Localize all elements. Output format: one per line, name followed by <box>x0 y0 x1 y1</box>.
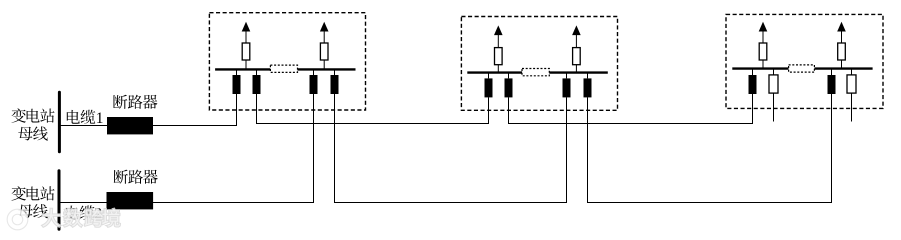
RMU3 bus-tie link (dotted box) <box>789 65 815 72</box>
RMU3 fuse F31 <box>759 43 767 69</box>
label: cable 1 (电缆1) <box>67 110 104 127</box>
RMU1 enclosure (dashed box) <box>209 13 365 110</box>
RMU3 load feeder arrow 1 <box>759 22 768 43</box>
wire: RMU1 S14 drop to link wire B <box>334 94 336 203</box>
wire: RMU1 S12 drop to link wire A <box>256 94 258 124</box>
wire: RMU3 S32 open stub <box>773 93 775 121</box>
RMU3 right bus section <box>814 67 872 69</box>
RMU2 load feeder arrow 2 <box>572 25 581 47</box>
wire: RMU2 S22 drop to link wire C <box>508 97 510 124</box>
busbar: substation bus 1 <box>58 92 61 151</box>
wire: RMU2 S24 drop to link wire D <box>587 97 589 203</box>
RMU1 switch S13 <box>310 69 318 94</box>
wire: RMU1 S13 drop to cable 2 <box>313 94 315 203</box>
RMU3 switch S32 <box>769 69 778 94</box>
RMU1 load feeder arrow 1 <box>242 22 251 43</box>
RMU2 bus-tie link (dotted box) <box>522 69 549 76</box>
wire: RMU2 S21 drop to link wire A <box>488 97 490 124</box>
label: circuit breaker QF1 (断路器) <box>113 95 157 109</box>
wire: link C RMU2-S22 to RMU3-S31 <box>508 123 753 125</box>
wire: RMU2 S23 drop to link wire B <box>566 97 568 203</box>
wire: link D RMU2-S24 to RMU3-S33 <box>587 202 832 204</box>
wire: cable 2 from bus2 to RMU1 switch S13 <box>59 202 314 204</box>
RMU2 switch S24 <box>584 73 592 98</box>
label: substation bus 1 (变电站母线) <box>12 108 55 140</box>
RMU2 right bus section <box>549 71 608 73</box>
circuit breaker QF1 <box>107 117 153 134</box>
RMU2 switch S22 <box>505 73 513 98</box>
watermark text 大数跨境 <box>42 209 120 227</box>
wire: link B RMU1-S14 to RMU2-S23 <box>334 202 567 204</box>
wire: RMU1 S11 drop to cable 1 <box>236 94 238 126</box>
wire: RMU3 S34 open stub <box>851 93 853 121</box>
RMU3 load feeder arrow 2 <box>837 22 846 43</box>
RMU1 left bus section <box>215 68 270 70</box>
wire: cable 1 from bus1 to RMU1 switch S11 <box>59 125 237 127</box>
RMU1 fuse F11 <box>242 43 250 69</box>
RMU2 enclosure (dashed box) <box>461 17 617 111</box>
RMU3 switch S33 <box>828 69 836 94</box>
RMU2 switch S21 <box>485 73 493 98</box>
svg-text:1: 1 <box>96 110 104 127</box>
RMU1 switch S12 <box>253 69 261 94</box>
RMU2 switch S23 <box>563 73 571 98</box>
circuit breaker QF2 <box>107 192 154 209</box>
busbar: substation bus 2 <box>58 171 61 230</box>
RMU1 load feeder arrow 2 <box>320 22 329 43</box>
RMU3 fuse F32 <box>838 43 846 69</box>
wire: link A RMU1-S12 to RMU2-S21 <box>256 123 489 125</box>
watermark logo ring <box>10 212 26 228</box>
RMU2 fuse F22 <box>573 48 581 73</box>
RMU2 load feeder arrow 1 <box>494 25 503 47</box>
RMU2 left bus section <box>467 71 522 73</box>
RMU1 switch S14 <box>331 69 339 94</box>
RMU3 enclosure (dashed box) <box>726 14 883 108</box>
label: circuit breaker QF2 (断路器) <box>114 170 158 184</box>
RMU1 fuse F12 <box>320 43 328 69</box>
RMU1 bus-tie link (dotted box) <box>270 65 297 72</box>
RMU2 fuse F21 <box>495 48 503 73</box>
wire: RMU3 S33 drop to link wire D <box>831 94 833 203</box>
RMU3 left bus section <box>732 67 788 69</box>
RMU1 switch S11 <box>233 69 241 94</box>
RMU3 switch S31 <box>749 69 757 94</box>
RMU1 right bus section <box>298 68 356 70</box>
wire: RMU3 S31 drop to link wire C <box>752 94 754 124</box>
label: cable 2 (电缆2) <box>66 205 102 222</box>
label: substation bus 2 (变电站母线) <box>12 186 55 218</box>
RMU3 switch S34 <box>847 69 856 94</box>
